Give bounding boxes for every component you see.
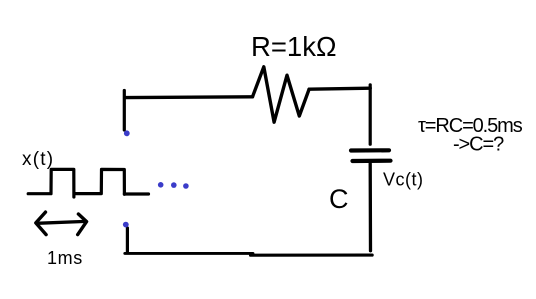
wire: bottom-left terminal vertical stub	[126, 228, 129, 253]
wire: bottom horizontal right segment	[251, 254, 373, 257]
ellipsis dot 2 (blue)	[171, 182, 177, 188]
node: top-left open terminal (blue dot)	[124, 130, 130, 136]
wire: resistor to top-right corner	[309, 88, 370, 89]
svg-text:Vc(t): Vc(t)	[383, 170, 424, 190]
arrow: 1ms period double-headed arrow shaft	[37, 221, 87, 223]
node: bottom-left open terminal (blue dot)	[123, 222, 129, 228]
wire: top-right vertical down to capacitor	[369, 85, 372, 144]
svg-text:->C=?: ->C=?	[453, 134, 504, 156]
resistor R1 zigzag	[253, 67, 310, 122]
arrow: left arrowhead	[36, 212, 46, 235]
arrow: right arrowhead	[78, 214, 87, 235]
svg-text:x(t): x(t)	[22, 149, 54, 170]
capacitor C1 top plate	[351, 148, 389, 152]
svg-text:C: C	[329, 184, 349, 214]
wire: top-left terminal vertical stub	[123, 91, 126, 131]
capacitor C1 bottom plate	[353, 159, 391, 164]
svg-text:R=1kΩ: R=1kΩ	[251, 31, 337, 62]
wire: right vertical below capacitor	[369, 164, 373, 251]
ellipsis dot 1 (blue)	[158, 182, 164, 188]
source waveform: square wave pulse 1	[28, 169, 74, 197]
wire: bottom horizontal left segment	[125, 252, 253, 255]
source waveform: trailing baseline segment	[124, 192, 148, 195]
svg-text:1ms: 1ms	[47, 248, 83, 268]
source waveform: square wave pulse 2	[76, 169, 125, 194]
wire: top horizontal from terminal to resistor	[125, 95, 253, 99]
ellipsis dot 3 (blue)	[183, 183, 189, 189]
